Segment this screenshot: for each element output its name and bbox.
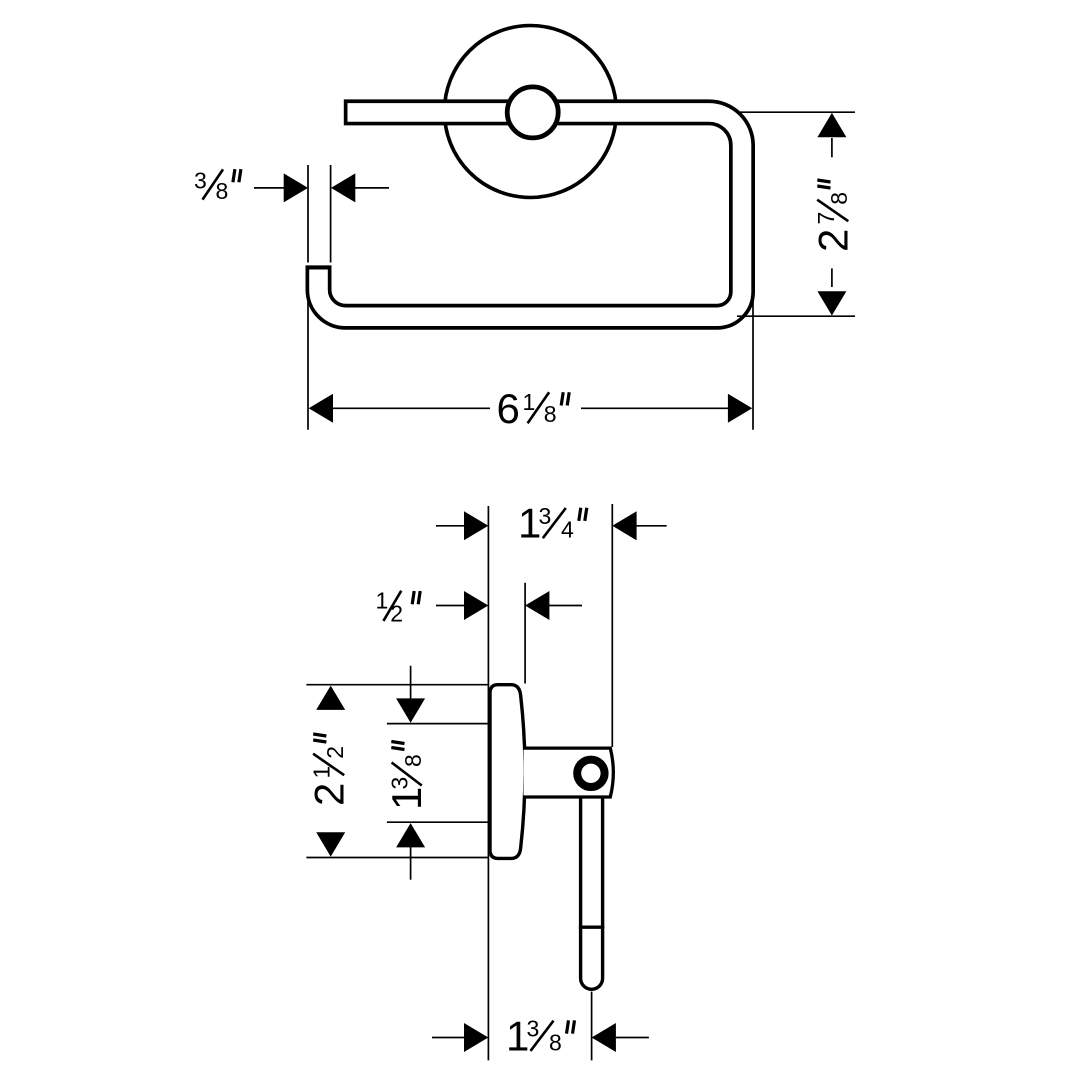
- svg-text:8: 8: [544, 401, 557, 427]
- svg-text:3: 3: [539, 503, 552, 529]
- svg-text:7: 7: [813, 212, 839, 225]
- svg-text:3: 3: [194, 167, 207, 193]
- svg-text:1: 1: [376, 588, 389, 614]
- svg-text:2: 2: [322, 746, 348, 759]
- svg-text:4: 4: [561, 517, 574, 543]
- svg-text:2: 2: [306, 783, 353, 806]
- svg-text:8: 8: [549, 1029, 562, 1055]
- svg-text:1: 1: [523, 389, 536, 415]
- svg-text:2: 2: [390, 600, 403, 626]
- svg-text:3: 3: [527, 1016, 540, 1042]
- svg-text:2: 2: [810, 229, 857, 252]
- svg-text:8: 8: [826, 192, 852, 205]
- svg-text:8: 8: [216, 178, 229, 204]
- svg-text:8: 8: [400, 754, 426, 767]
- svg-text:1: 1: [309, 766, 335, 779]
- svg-text:6: 6: [497, 385, 520, 432]
- svg-text:3: 3: [387, 777, 413, 790]
